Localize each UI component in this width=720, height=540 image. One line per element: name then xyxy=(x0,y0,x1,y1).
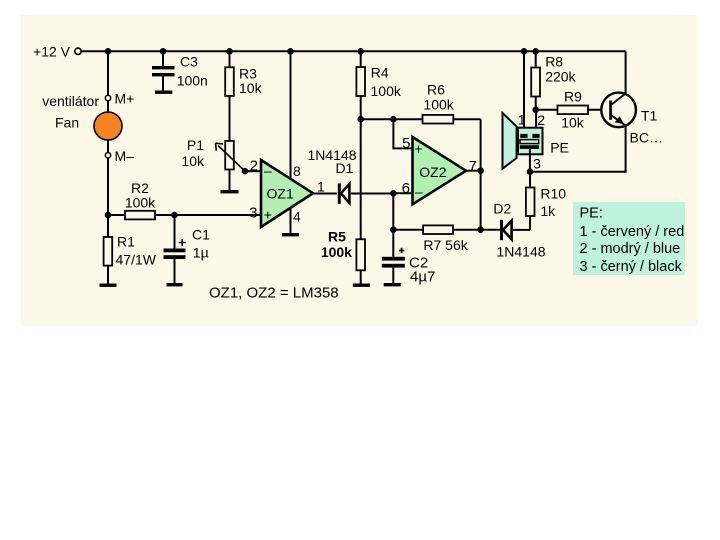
svg-text:100k: 100k xyxy=(423,97,454,113)
svg-text:2 - modrý / blue: 2 - modrý / blue xyxy=(580,241,681,257)
svg-text:+: + xyxy=(264,207,272,223)
node: rail junction PE pin1 xyxy=(521,48,528,55)
PE plate solid xyxy=(520,145,539,149)
label R4 value xyxy=(371,65,402,99)
label R6 value xyxy=(423,81,454,112)
svg-text:PE:: PE: xyxy=(580,205,603,221)
label R10 value xyxy=(540,186,566,219)
svg-text:100k: 100k xyxy=(371,83,402,99)
node: R8 bottom pin2 xyxy=(532,107,539,114)
wire: emitter down and left xyxy=(530,125,626,172)
ground under C3 xyxy=(155,91,172,94)
resistor R7 xyxy=(423,225,453,234)
node: R2 right / C1 xyxy=(171,212,178,219)
svg-text:1N4148: 1N4148 xyxy=(496,244,545,260)
svg-text:R4: R4 xyxy=(371,65,389,81)
svg-text:6: 6 xyxy=(402,180,410,197)
svg-text:3 - černý / black: 3 - černý / black xyxy=(580,259,683,275)
node: rail junction fan xyxy=(105,48,112,55)
ground under C1 xyxy=(167,283,183,286)
PE pad pin1 xyxy=(520,134,527,138)
svg-text:10k: 10k xyxy=(239,80,263,96)
wire: pin2 into PE xyxy=(535,110,537,134)
svg-text:D2: D2 xyxy=(493,201,511,217)
ground under C2 xyxy=(384,283,401,286)
svg-text:C3: C3 xyxy=(180,54,198,70)
label R5 value xyxy=(321,228,352,260)
svg-text:Fan: Fan xyxy=(55,115,79,131)
resistor R3 xyxy=(225,51,234,141)
svg-text:7: 7 xyxy=(469,157,477,173)
svg-text:M+: M+ xyxy=(115,91,135,107)
svg-text:OZ2: OZ2 xyxy=(419,164,446,180)
wire: collector to rail xyxy=(625,51,627,94)
speaker PE horn xyxy=(503,113,517,169)
node: rail junction R4 xyxy=(357,48,364,55)
svg-text:PE: PE xyxy=(550,139,569,155)
svg-text:1µ: 1µ xyxy=(193,245,209,261)
label R8 value xyxy=(545,54,576,85)
node: pin5 branch xyxy=(390,116,397,123)
node: C2 top xyxy=(390,226,397,233)
node: rail junction R3 xyxy=(226,48,233,55)
+12V supply terminal xyxy=(33,44,81,60)
wire: output row to D2 xyxy=(481,229,501,231)
wire: rail to M+ xyxy=(107,51,109,95)
wire: R4 node down to R5 xyxy=(360,119,362,239)
capacitor C1 xyxy=(164,215,186,283)
R6 row wire xyxy=(361,118,481,120)
svg-text:1: 1 xyxy=(317,179,325,195)
svg-text:2: 2 xyxy=(250,157,258,174)
wire: PE pin1 from rail xyxy=(523,51,525,134)
wire: pin6 stub xyxy=(393,192,412,194)
node: output xyxy=(477,167,484,174)
node: feedback bottom xyxy=(477,226,484,233)
node: pin6 xyxy=(390,190,397,197)
legend box PE wiring xyxy=(573,202,685,275)
svg-text:T1: T1 xyxy=(641,108,658,124)
svg-text:1N4148: 1N4148 xyxy=(307,147,356,163)
svg-text:R8: R8 xyxy=(545,54,563,70)
svg-text:–: – xyxy=(264,163,272,179)
ground under P1 xyxy=(221,190,239,193)
svg-text:C1: C1 xyxy=(192,227,210,243)
capacitor C2 xyxy=(382,230,405,283)
resistor R2 xyxy=(125,211,155,220)
label P1 value xyxy=(181,137,205,169)
resistor R6 xyxy=(423,115,454,124)
capacitor C3 xyxy=(152,51,175,90)
ground under R1 xyxy=(100,284,117,287)
svg-text:2: 2 xyxy=(537,112,545,128)
svg-text:4: 4 xyxy=(293,208,301,224)
wire: OZ1 output xyxy=(313,193,337,195)
svg-text:R6: R6 xyxy=(427,81,445,97)
svg-text:100k: 100k xyxy=(125,195,156,211)
label R9 value xyxy=(561,89,585,131)
wire: pin6 down to R7 row xyxy=(392,193,394,229)
label R3 value xyxy=(239,66,263,96)
wire: OZ2 output xyxy=(466,170,481,172)
diode D1 xyxy=(338,183,394,203)
node: rail junction C3 xyxy=(160,48,167,55)
resistor R1 xyxy=(104,215,113,284)
label R1 value xyxy=(116,234,157,268)
svg-text:220k: 220k xyxy=(545,69,576,85)
transistor T1 xyxy=(601,93,636,128)
speaker PE body xyxy=(518,128,543,155)
label C1 value xyxy=(192,227,210,261)
svg-text:1 - červený / red: 1 - červený / red xyxy=(580,224,685,240)
svg-text:BC…: BC… xyxy=(630,130,663,146)
node: R2 left xyxy=(105,212,112,219)
svg-text:+: + xyxy=(414,141,422,157)
svg-text:ventilátor: ventilátor xyxy=(42,93,99,109)
svg-text:R1: R1 xyxy=(117,234,135,250)
resistor R10 xyxy=(526,172,535,230)
resistor R5 xyxy=(356,239,365,283)
svg-text:–: – xyxy=(415,183,423,199)
node: pin3 emitter junction xyxy=(527,168,534,175)
node: wiper junction pin2 xyxy=(242,168,249,175)
svg-text:OZ1: OZ1 xyxy=(267,186,294,202)
PE pad pin2 xyxy=(532,134,539,138)
wire: top +12V rail xyxy=(81,50,626,52)
svg-text:3: 3 xyxy=(533,156,541,172)
label R2 value xyxy=(125,180,156,211)
resistor R8 xyxy=(531,51,540,110)
R9 row wire xyxy=(536,109,610,111)
svg-text:1: 1 xyxy=(518,112,526,128)
svg-text:R7 56k: R7 56k xyxy=(423,237,468,253)
svg-text:1k: 1k xyxy=(540,203,556,219)
schematic panel background xyxy=(21,15,697,326)
svg-text:10k: 10k xyxy=(561,115,585,131)
node: rail junction R8 xyxy=(532,48,539,55)
svg-text:100k: 100k xyxy=(321,244,352,260)
svg-text:3: 3 xyxy=(249,205,257,222)
wire: pin2 stub xyxy=(245,170,261,172)
label C3 value xyxy=(177,54,208,89)
node: rail junction pin8 xyxy=(287,48,294,55)
R2 row wire xyxy=(108,214,261,216)
svg-text:100n: 100n xyxy=(177,73,208,89)
wire: M- down to R2 node xyxy=(107,158,109,215)
wire: PE pin3 xyxy=(529,149,531,172)
ground under R5 xyxy=(353,284,370,287)
motor fan M1 xyxy=(94,101,122,140)
label D1 value xyxy=(307,147,356,176)
op-amp OZ2 xyxy=(413,137,467,204)
svg-text:4µ7: 4µ7 xyxy=(410,269,435,286)
terminal M- xyxy=(105,148,134,164)
svg-text:OZ1, OZ2 = LM358: OZ1, OZ2 = LM358 xyxy=(209,284,339,301)
label C2 value xyxy=(409,254,435,285)
diode D2 xyxy=(500,220,530,240)
svg-text:M–: M– xyxy=(115,148,135,164)
ground under OZ1 pin4 xyxy=(282,233,299,236)
resistor R4 xyxy=(356,51,365,119)
R7 row wire xyxy=(393,229,480,231)
wire: fan to M- xyxy=(107,140,109,153)
potentiometer P1 xyxy=(216,141,246,190)
label D2 value xyxy=(493,201,545,260)
svg-text:8: 8 xyxy=(293,163,301,179)
node: R4 bottom xyxy=(357,116,364,123)
svg-text:+12 V: +12 V xyxy=(33,44,71,60)
svg-text:R10: R10 xyxy=(540,186,566,202)
svg-text:10k: 10k xyxy=(181,153,205,169)
wire: pin4 to ground xyxy=(290,208,292,234)
svg-text:R5: R5 xyxy=(328,228,346,244)
terminal M+ xyxy=(105,91,134,107)
wire: R6 feedback vertical xyxy=(480,119,482,230)
wire: to pin 5 xyxy=(393,119,412,148)
svg-text:5: 5 xyxy=(402,135,410,152)
svg-text:R9: R9 xyxy=(564,89,582,105)
svg-text:47/1W: 47/1W xyxy=(116,252,157,268)
op-amp OZ1 xyxy=(261,51,313,227)
svg-text:P1: P1 xyxy=(187,137,204,153)
resistor R9 xyxy=(558,106,589,115)
PE plate outline xyxy=(520,140,539,144)
